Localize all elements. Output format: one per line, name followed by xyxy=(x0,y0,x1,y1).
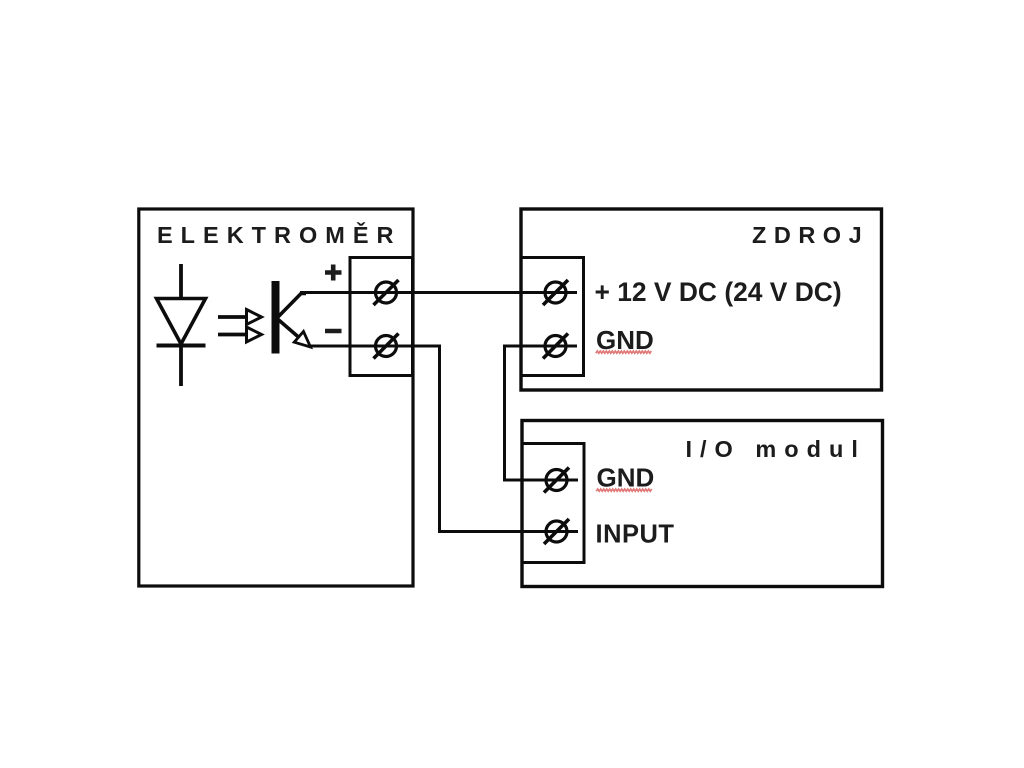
svg-text:+ 12 V DC (24 V DC): + 12 V DC (24 V DC) xyxy=(595,277,842,307)
box I/O modul xyxy=(522,421,883,587)
terminal screw GND (I/O) xyxy=(544,468,569,493)
phototransistor Q1 xyxy=(272,281,311,354)
wire GND vertical drop xyxy=(503,345,506,482)
LED D1 (emitter diode) xyxy=(157,264,206,386)
light arrow lower xyxy=(218,327,262,342)
terminal screw +12V (zdroj) xyxy=(543,280,568,305)
svg-text:ZDROJ: ZDROJ xyxy=(752,222,869,248)
wire minus to INPUT terminal xyxy=(440,530,579,533)
terminal block of ZDROJ xyxy=(521,258,584,376)
base bar xyxy=(272,281,280,354)
plus sign label xyxy=(325,265,342,281)
minus sign label xyxy=(325,329,342,334)
wire GND: ZDROJ GND terminal leftward xyxy=(505,345,578,348)
svg-text:INPUT: INPUT xyxy=(596,521,675,549)
squiggle under GND (zdroj) xyxy=(596,351,652,353)
box ELEKTROMER (meter enclosure) xyxy=(139,209,413,586)
terminal block of I/O modul xyxy=(522,444,584,563)
terminal block of ELEKTROMER xyxy=(350,258,413,376)
emitter lead xyxy=(277,319,299,338)
wire GND to I/O GND terminal xyxy=(505,479,579,482)
svg-text:I/O modul: I/O modul xyxy=(686,436,866,462)
terminal screw - (meter) xyxy=(374,334,399,359)
terminal screw GND (zdroj) xyxy=(543,334,568,359)
light arrow upper xyxy=(218,310,262,325)
wire minus: emitter to corner xyxy=(308,345,441,348)
svg-text:ELEKTROMĚR: ELEKTROMĚR xyxy=(157,221,402,248)
box ZDROJ (power supply) xyxy=(521,209,882,390)
terminal screw + (meter) xyxy=(374,280,399,305)
wire plus: collector to ZDROJ +12V terminal xyxy=(300,291,577,294)
wire minus vertical drop xyxy=(438,345,441,534)
collector lead xyxy=(277,294,306,319)
terminal screw INPUT (I/O) xyxy=(544,519,569,544)
squiggle under GND (I/O) xyxy=(596,489,652,491)
emitter arrowhead (open) xyxy=(294,332,310,348)
